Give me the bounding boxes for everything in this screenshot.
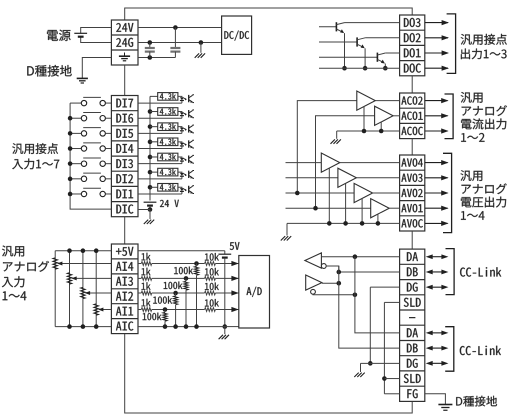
wire FG to class-D earth xyxy=(425,394,446,405)
label ACO1 xyxy=(401,112,422,120)
junction bus DI3 xyxy=(68,161,73,166)
wire wiper AI3 xyxy=(76,277,111,279)
ground chassis (DIC) xyxy=(149,210,151,220)
label DI4 xyxy=(116,144,133,153)
label 5V xyxy=(230,242,240,250)
junction 24G-cap1 xyxy=(148,40,153,45)
wire DI1 row xyxy=(138,193,182,195)
junction emitter DO1 xyxy=(383,66,388,71)
terminal block CC-Link DA-FG xyxy=(400,249,425,401)
label 出力1〜3 xyxy=(461,49,507,60)
wire emitter DO1 xyxy=(384,64,386,69)
label 汎用接点 (left) xyxy=(12,143,58,154)
label DB (cc row 7) xyxy=(407,344,418,353)
wire analog-ground bottom rail xyxy=(125,334,413,413)
junction bus DI4 xyxy=(68,146,73,151)
arrow CC-Link 2 row 6 xyxy=(433,332,442,334)
wire +5V row right xyxy=(138,250,225,252)
label AVO4 xyxy=(401,158,422,166)
label 汎用 (ACO) xyxy=(461,92,483,103)
junction AIC pot3 xyxy=(67,324,72,329)
wire DAC1 input xyxy=(286,207,371,209)
junction 100k AIC (AI3) xyxy=(184,324,189,329)
label AI1 xyxy=(116,307,133,316)
resistor 1k (AI3) xyxy=(138,277,141,279)
wire potentiometer 2 body xyxy=(82,251,84,327)
label DA (cc row 1) xyxy=(407,252,418,261)
wire 24V to DC/DC xyxy=(138,27,222,29)
label D種接地 (right) xyxy=(456,396,497,407)
wire AVO3 output xyxy=(356,177,399,179)
label AI4 xyxy=(116,262,133,271)
junction emitter DO3 xyxy=(342,66,347,71)
transistor Q3 (DO3) xyxy=(335,22,337,31)
wire R to LED (DI1) xyxy=(178,186,182,189)
junction AIC pot2 xyxy=(81,324,86,329)
wire AVO1 output xyxy=(389,207,399,209)
arrow CC-Link 1 row 3 xyxy=(433,286,442,288)
label 電源 xyxy=(47,30,71,41)
switch contact input 3 (DI3) xyxy=(70,163,81,165)
junction LG-cap1 xyxy=(148,55,153,60)
resistor 1k (AI1) xyxy=(138,309,141,311)
wire 24V bus to DIC xyxy=(149,206,151,210)
label DI3 xyxy=(116,159,132,168)
label 汎用 (AVO) xyxy=(461,170,483,181)
wire AI2 row xyxy=(152,292,205,294)
capacitor C2 24V-LG xyxy=(174,28,176,49)
label AVO2 xyxy=(401,189,422,197)
label 入力 (AI) xyxy=(2,276,25,287)
potentiometer VR1 xyxy=(94,304,99,315)
switch contact input 4 (DI4) xyxy=(70,148,81,150)
op-amp buffer AVO3 xyxy=(338,168,357,187)
label 10k (AI4) xyxy=(205,253,219,261)
wire bus to R4.3k (DI6) xyxy=(150,111,158,113)
optocoupler phototransistor (DI7) xyxy=(188,95,190,102)
bubble receiver enable xyxy=(321,264,326,269)
label DOC xyxy=(404,64,421,73)
label 電流出力 (ACO) xyxy=(461,119,506,130)
wire DG1 row xyxy=(370,286,399,288)
wire collector DO1 xyxy=(385,52,399,54)
potentiometer VR4 xyxy=(53,258,58,269)
arrow output AVO row 3 xyxy=(425,192,448,194)
label DA (cc row 6) xyxy=(407,328,418,337)
wire R to LED (DI3) xyxy=(178,156,182,159)
wire AVO4 output xyxy=(340,162,400,164)
arrow output AVO row 1 xyxy=(425,162,448,164)
resistor 100k (AI2) xyxy=(174,296,178,305)
wire SLD1 row xyxy=(384,301,399,303)
wire DA1 row xyxy=(321,256,399,258)
capacitor C1 24G-LG xyxy=(149,43,151,49)
wire AI2 to A/D xyxy=(215,292,238,294)
label AIC xyxy=(116,322,133,331)
wire DB net vertical xyxy=(339,266,400,348)
wire DAC2 input xyxy=(286,192,355,194)
switch contact input 7 (DI7) xyxy=(70,102,81,104)
label 100k (AI3) xyxy=(164,282,183,290)
resistor 10k (AI4) xyxy=(205,262,216,266)
wire DI2 row xyxy=(138,178,182,180)
wire battery- to 24G xyxy=(81,37,112,43)
wire AI3 to A/D xyxy=(215,277,238,279)
battery 5V ref xyxy=(218,253,231,255)
wire DG net vertical xyxy=(369,287,371,363)
junction bus DI2 xyxy=(68,177,73,182)
ground class-D earth (right) xyxy=(438,404,452,406)
wire AVO4 return xyxy=(328,168,330,223)
wire bus to R4.3k (DI7) xyxy=(150,95,158,97)
junction 24Vbus R3 xyxy=(148,155,153,160)
junction 100k tap (AI1) xyxy=(163,307,168,312)
wire R to LED (DI6) xyxy=(178,111,182,114)
wire collector DO3 xyxy=(345,22,400,24)
resistor 4.3k (DI5) xyxy=(158,123,178,131)
ground chassis (DG) xyxy=(360,363,362,372)
arrow output DO row 4 xyxy=(425,67,448,69)
terminal block +5V/AI4-AI1/AIC xyxy=(111,244,138,334)
label 10k (AI2) xyxy=(205,283,219,291)
wire LG line xyxy=(138,57,175,59)
label 100k (AI2) xyxy=(153,296,172,304)
junction 24G-chassis xyxy=(199,40,204,45)
junction bus DI1 xyxy=(68,192,73,197)
bracket DO outputs xyxy=(447,14,456,74)
wire base drive DO1 xyxy=(319,56,377,58)
label dash (cc row 5) xyxy=(409,317,415,319)
label AI2 xyxy=(116,292,133,301)
op-amp buffer AVO1 xyxy=(371,199,390,218)
label SLD (cc row 9) xyxy=(404,374,421,383)
wire DI7 row xyxy=(138,102,182,104)
junction DB1 xyxy=(337,270,342,275)
label 24V xyxy=(116,23,133,32)
bracket CC-Link 1 xyxy=(446,249,455,295)
label ACOC xyxy=(401,127,423,135)
wire potentiometer 4 body xyxy=(54,251,56,327)
junction 100k tap (AI4) xyxy=(194,261,199,266)
junction 24Vbus R2 xyxy=(148,170,153,175)
optocoupler LED (DI6) xyxy=(180,112,184,115)
label DO3 xyxy=(404,18,421,27)
bracket AVO outputs xyxy=(443,153,452,232)
optocoupler LED (DI1) xyxy=(180,188,184,191)
wire collector DO2 xyxy=(365,37,400,39)
wire DIC from block xyxy=(138,209,150,211)
resistor 10k (AI3) xyxy=(205,277,216,281)
label DB (cc row 2) xyxy=(407,267,418,276)
label +5V xyxy=(116,247,133,256)
battery 24V supply xyxy=(74,32,87,34)
terminal block DI7-DIC xyxy=(111,96,138,217)
label CC-Link 1 xyxy=(460,267,501,276)
wire bus to R4.3k (DI3) xyxy=(150,156,158,158)
wire AVO2 return xyxy=(361,199,363,224)
optocoupler phototransistor (DI3) xyxy=(188,155,190,162)
arrow output AVO row 2 xyxy=(425,177,448,179)
wire ACO2 return xyxy=(363,106,365,131)
junction DAC2 branch xyxy=(295,191,300,196)
label 1〜2 (ACO) xyxy=(461,133,484,142)
label 10k (AI3) xyxy=(205,268,219,276)
transistor Q1 (DO1) xyxy=(376,53,378,62)
label DG (cc row 3) xyxy=(407,283,418,292)
wire DI4 row xyxy=(138,148,182,150)
wire emitter DO2 xyxy=(364,48,366,68)
label 入力1〜7 xyxy=(12,159,59,170)
label DI6 xyxy=(116,114,133,123)
resistor 4.3k (DI7) xyxy=(158,93,178,101)
junction driver DA xyxy=(353,293,358,298)
wire R to LED (DI4) xyxy=(178,141,182,144)
junction 24Vbus R4 xyxy=(148,140,153,145)
junction driver DB xyxy=(337,281,342,286)
transistor Q2 (DO2) xyxy=(356,37,358,46)
label 1k (AI3) xyxy=(142,268,151,276)
terminal block AVO4-AVOC xyxy=(400,155,425,231)
junction 100k AIC (AI4) xyxy=(194,324,199,329)
label 24G xyxy=(116,38,133,47)
junction 24V-cap2 xyxy=(173,25,178,30)
wire FG row xyxy=(384,393,399,395)
wire potentiometer 1 body xyxy=(95,251,97,327)
label 1k (AI1) xyxy=(142,299,151,307)
wire +5V row left xyxy=(55,250,111,252)
junction bus DI6 xyxy=(68,116,73,121)
wire R to LED (DI5) xyxy=(178,126,182,129)
optocoupler LED (DI7) xyxy=(180,97,184,100)
junction +5V pot1 xyxy=(94,248,99,253)
wire AVO to CC connector xyxy=(411,231,413,249)
switch contact input 5 (DI5) xyxy=(70,132,81,134)
wire DI5 row xyxy=(138,132,182,134)
wire SLD2 row xyxy=(384,378,399,380)
wire ACO to AVO connector xyxy=(411,139,413,155)
wire ACO1 output xyxy=(393,115,400,117)
label 100k (AI4) xyxy=(174,267,193,275)
battery internal 24V xyxy=(144,201,157,203)
buffer driver (CC-Link) xyxy=(306,275,322,290)
label DO2 xyxy=(404,33,421,42)
junction AVO3 return xyxy=(343,221,348,226)
wire AIC row right xyxy=(138,326,225,328)
wire AI4 to A/D xyxy=(215,263,238,265)
wire DAC1 to ACO1 buffer xyxy=(316,116,375,208)
label 汎用接点 (DO) xyxy=(461,34,507,45)
wire R to LED (DI7) xyxy=(178,95,182,98)
wire R to LED (DI2) xyxy=(178,171,182,174)
label アナログ (AI) xyxy=(3,261,49,272)
label アナログ (ACO) xyxy=(462,105,507,116)
label ACO2 xyxy=(401,96,422,104)
optocoupler phototransistor (DI5) xyxy=(188,125,190,132)
optocoupler phototransistor (DI6) xyxy=(188,110,190,117)
wire ACOC common xyxy=(337,130,400,132)
optocoupler phototransistor (DI1) xyxy=(188,186,190,193)
wire AIC row left xyxy=(55,326,111,328)
resistor 100k (AI4) xyxy=(194,266,198,275)
label AVO3 xyxy=(401,174,422,182)
junction 100k tap (AI2) xyxy=(173,291,178,296)
wire wiper AI2 xyxy=(90,292,112,294)
junction +5V pot2 xyxy=(81,248,86,253)
label 1k (AI4) xyxy=(142,253,151,260)
junction ACO1 return xyxy=(379,129,384,134)
wire DB1 row xyxy=(339,271,400,273)
optocoupler LED (DI5) xyxy=(180,128,184,131)
terminal block DO3-DOC xyxy=(400,15,425,76)
arrow CC-Link 1 row 2 xyxy=(433,271,442,273)
ground chassis (AVOC) xyxy=(286,223,288,235)
wire internal 24V bus xyxy=(149,96,151,200)
terminal LG earth symbol xyxy=(124,53,126,57)
wire receiver- to DB net xyxy=(326,266,339,272)
label AVO1 xyxy=(401,204,422,212)
wire wiper AI4 xyxy=(62,263,111,265)
label 24V internal xyxy=(160,200,179,207)
junction AVO2 return xyxy=(360,221,365,226)
optocoupler LED (DI2) xyxy=(180,173,184,176)
wire AVO3 return xyxy=(345,184,347,224)
label アナログ (AVO) xyxy=(462,183,507,194)
wire AI4 row xyxy=(152,263,205,265)
junction DIC xyxy=(148,207,153,212)
resistor 4.3k (DI6) xyxy=(158,108,178,116)
junction AIC pot1 xyxy=(94,324,99,329)
wire bus to R4.3k (DI1) xyxy=(150,186,158,188)
terminal block ACO2-ACOC xyxy=(400,93,425,139)
label FG (cc row 10) xyxy=(407,389,417,398)
arrow CC-Link 2 row 7 xyxy=(433,347,442,349)
converter DC/DC box xyxy=(222,16,252,54)
arrow output ACO row 1 xyxy=(425,100,448,102)
label DI7 xyxy=(116,99,133,108)
wire DI3 row xyxy=(138,163,182,165)
op-amp buffer ACO1 xyxy=(375,106,394,125)
label 電圧出力 (AVO) xyxy=(461,197,506,208)
resistor 4.3k (DI1) xyxy=(158,184,178,192)
wire emitter DO3 xyxy=(344,33,346,68)
junction bus DI5 xyxy=(68,131,73,136)
label DG (cc row 8) xyxy=(407,359,418,368)
label 100k (AI1) xyxy=(143,313,162,321)
wire driver output to DB net xyxy=(322,282,339,284)
resistor 4.3k (DI2) xyxy=(158,168,178,176)
ground class-D earth (left) xyxy=(77,77,88,79)
op-amp buffer AVO2 xyxy=(354,183,373,202)
optocoupler LED (DI3) xyxy=(180,158,184,161)
label DI5 xyxy=(116,129,133,138)
arrow output AVO row 4 xyxy=(425,207,448,209)
optocoupler phototransistor (DI2) xyxy=(188,171,190,178)
wire LG to class-D earth xyxy=(82,58,111,79)
bubble driver invert xyxy=(311,289,316,294)
optocoupler phototransistor (DI4) xyxy=(188,140,190,147)
arrow output DO row 3 xyxy=(425,52,448,54)
buffer receiver (CC-Link) xyxy=(305,253,322,268)
label CC-Link 2 xyxy=(460,346,501,355)
label DI1 xyxy=(116,190,133,199)
junction emitter DO2 xyxy=(363,66,368,71)
ground chassis (ACOC) xyxy=(336,131,338,139)
resistor 1k (AI4) xyxy=(138,263,141,265)
wire DI6 row xyxy=(138,117,182,119)
potentiometer VR3 xyxy=(67,273,72,284)
wire 24G to DC/DC xyxy=(138,42,222,44)
junction 100k AIC (AI1) xyxy=(163,324,168,329)
junction SLD2 xyxy=(382,376,387,381)
label AI3 xyxy=(116,277,133,286)
label 汎用 (AI) xyxy=(2,246,24,257)
wire bus to R4.3k (DI2) xyxy=(150,171,158,173)
wire base drive DO2 xyxy=(319,41,357,43)
wire driver- to DA net xyxy=(313,293,355,296)
ground chassis (power) xyxy=(200,43,202,53)
resistor 4.3k (DI3) xyxy=(158,153,178,161)
label AVOC xyxy=(401,219,423,227)
wire AI3 row xyxy=(152,277,205,279)
wire SLD net vertical xyxy=(383,302,385,393)
op-amp buffer AVO4 xyxy=(321,153,340,172)
wire DO to ACO connector xyxy=(411,76,413,93)
switch contact input 2 (DI2) xyxy=(70,178,81,180)
wire AI1 row xyxy=(152,309,205,311)
junction 24Vbus R6 xyxy=(148,109,153,114)
wire AI1 to A/D xyxy=(215,309,238,311)
resistor 4.3k (DI4) xyxy=(158,138,178,146)
wire DA net vertical xyxy=(355,257,400,333)
junction DAC1 branch xyxy=(313,206,318,211)
junction 100k AIC (AI2) xyxy=(173,324,178,329)
wire bus to R4.3k (DI5) xyxy=(150,126,158,128)
label SLD (cc row 4) xyxy=(404,298,421,307)
arrow output AVO row 5 xyxy=(425,222,448,224)
label D種接地 (left) xyxy=(27,65,71,77)
potentiometer VR2 xyxy=(81,287,86,298)
ground chassis (AIC) xyxy=(224,327,226,335)
resistor 1k (AI2) xyxy=(138,292,141,294)
resistor 10k (AI2) xyxy=(205,291,216,295)
label 1k (AI2) xyxy=(142,282,151,290)
wire DI input bus xyxy=(70,103,111,209)
junction 24Vbus R1 xyxy=(148,185,153,190)
terminal block power 24V/24G/LG xyxy=(111,20,138,65)
junction 100k tap (AI3) xyxy=(184,276,189,281)
junction AVO1 return xyxy=(376,221,381,226)
converter A/D box xyxy=(239,256,270,329)
label DIC xyxy=(116,205,133,214)
wire DAC2 to ACO2 buffer xyxy=(297,101,357,193)
junction 5V-AIC xyxy=(223,324,228,329)
label A/D xyxy=(247,287,262,297)
wire DI to AI block xyxy=(124,217,126,244)
label DI2 xyxy=(116,174,133,183)
junction 24Vbus R5 xyxy=(148,124,153,129)
wire ACO1 return xyxy=(380,122,382,131)
junction ACO2 return xyxy=(362,129,367,134)
junction AVO4 return xyxy=(327,221,332,226)
wire AVO2 output xyxy=(373,192,400,194)
arrow output DO row 1 xyxy=(425,22,448,24)
resistor 100k (AI1) xyxy=(163,312,167,321)
arrow output DO row 2 xyxy=(425,37,448,39)
wire potentiometer 3 body xyxy=(69,251,71,327)
wire wiper AI1 xyxy=(103,309,111,311)
junction DG2 xyxy=(368,361,373,366)
arrow output ACO row 2 xyxy=(425,115,448,117)
